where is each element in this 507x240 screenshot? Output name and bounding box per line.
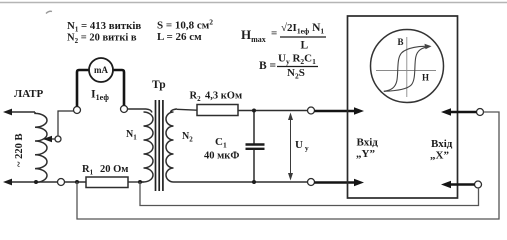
svg-text:B =: B = [259, 60, 276, 72]
scope screen circle [371, 30, 444, 103]
latr wiper arrow and terminal [44, 138, 55, 140]
svg-text:L: L [301, 40, 309, 52]
junction C1 top [252, 109, 256, 113]
resistor R1 [86, 177, 128, 188]
wire R2 to Y top terminal [238, 110, 308, 112]
svg-text:R1: R1 [82, 164, 94, 177]
svg-text:20 Ом: 20 Ом [100, 164, 128, 175]
terminal circle under mA right [121, 106, 128, 113]
wire X bottom to R1 tap [140, 182, 479, 206]
svg-text:„X”: „X” [430, 150, 449, 162]
svg-text:40 мкФ: 40 мкФ [204, 151, 239, 162]
mA meter circle [89, 58, 113, 82]
junction coil bottom [34, 180, 38, 184]
thick arrow into Y bottom [315, 181, 357, 184]
thick wires to mA meter [77, 70, 89, 107]
terminal circle under mA left [74, 107, 81, 114]
arrowhead left top [3, 109, 12, 116]
svg-text:4,3 кОм: 4,3 кОм [205, 91, 242, 102]
svg-text:U y: U y [295, 139, 309, 153]
formula B [259, 53, 318, 81]
terminal Y top [308, 107, 315, 114]
wire X top around right to bottom rail [77, 112, 499, 219]
svg-text:√2I1еф N1: √2I1еф N1 [281, 22, 324, 36]
thick arrow into X bottom [449, 183, 475, 186]
svg-text:I1еф: I1еф [91, 87, 109, 103]
terminal X bottom [475, 181, 482, 188]
svg-text:N2 = 20 виткі в: N2 = 20 виткі в [67, 33, 137, 46]
wire wiper to terminal 1 [58, 111, 74, 136]
svg-text:C1: C1 [215, 136, 227, 150]
junction R1 right / X tap [138, 180, 142, 184]
svg-text:L = 26 см: L = 26 см [157, 31, 202, 43]
svg-text:N1 = 413 витків: N1 = 413 витків [67, 20, 141, 34]
svg-text:Hmax: Hmax [241, 27, 266, 44]
wire: latr top lead with left arrow [9, 111, 35, 113]
svg-text:R2: R2 [190, 91, 202, 104]
svg-text:Тр: Тр [152, 79, 166, 91]
Uy measurement arrow [290, 116, 292, 178]
svg-text:~ 220 В: ~ 220 В [14, 134, 25, 167]
svg-text:Вхід: Вхід [357, 137, 379, 149]
wire secondary top to R2 [177, 108, 197, 111]
transformer secondary N2 [166, 109, 180, 182]
wire: latr bottom rail with left arrow [9, 181, 86, 183]
top page rule [0, 2, 507, 4]
svg-text:Вхід: Вхід [431, 138, 453, 150]
svg-text:B: B [398, 37, 404, 47]
formula Hmax [241, 22, 326, 52]
thick arrow into Y top [315, 110, 357, 113]
wire: terminal to primary top [128, 108, 147, 110]
transformer core [156, 100, 163, 191]
svg-text:=: = [271, 28, 277, 40]
svg-text:mA: mA [94, 65, 108, 75]
terminal circle bottom-left [58, 179, 65, 186]
svg-text:N2: N2 [182, 131, 193, 144]
svg-text:N2S: N2S [287, 67, 305, 81]
svg-text:S = 10,8 см2: S = 10,8 см2 [157, 18, 213, 32]
thick arrow into X top [449, 111, 477, 114]
terminal X top [477, 109, 484, 116]
wire secondary bottom rail [180, 181, 308, 183]
terminal Y bottom [308, 179, 315, 186]
junction bottom tap [75, 180, 79, 184]
junction C1 bottom [252, 180, 256, 184]
arrowhead left bottom [3, 179, 12, 186]
autotransformer ЛАТР coil [35, 112, 47, 182]
wire R1 right to primary bottom [128, 181, 144, 183]
hysteresis loop [384, 46, 430, 91]
capacitor C1 [246, 111, 265, 183]
svg-text:Uy R2C1: Uy R2C1 [278, 53, 316, 67]
transformer primary N1 [140, 109, 153, 182]
screen axes [376, 37, 436, 97]
svg-text:H: H [422, 73, 429, 83]
svg-text:N1: N1 [126, 129, 137, 142]
oscilloscope box [348, 16, 458, 198]
svg-text:„Y”: „Y” [356, 148, 375, 160]
scan speck [46, 11, 52, 13]
svg-text:ЛАТР: ЛАТР [14, 88, 44, 100]
resistor R2 [197, 105, 238, 116]
